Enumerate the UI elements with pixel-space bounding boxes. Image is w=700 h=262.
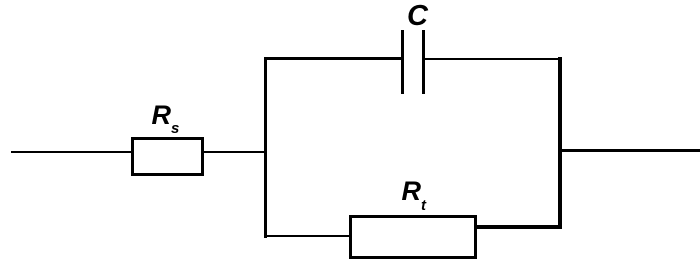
wire: right branch vertical (node B) [558, 57, 562, 229]
wire: bottom branch, node A to resistor Rt [264, 235, 352, 237]
wire: top branch, node A to capacitor [264, 57, 402, 60]
wire: Rs to node A [204, 151, 266, 153]
capacitor C: left plate [401, 30, 404, 94]
wire: Rt to node B (thick) [475, 225, 561, 229]
label C [407, 2, 428, 31]
wire: capacitor to node B [424, 58, 560, 61]
resistor Rs (box) [131, 137, 204, 176]
label Rt [402, 178, 427, 213]
wire: left branch vertical (node A) [264, 57, 267, 238]
wire: left input lead [11, 151, 131, 153]
label Rs [152, 102, 180, 136]
wire: output lead [561, 149, 700, 152]
capacitor C: right plate [422, 30, 425, 94]
resistor Rt (box) [349, 215, 477, 259]
